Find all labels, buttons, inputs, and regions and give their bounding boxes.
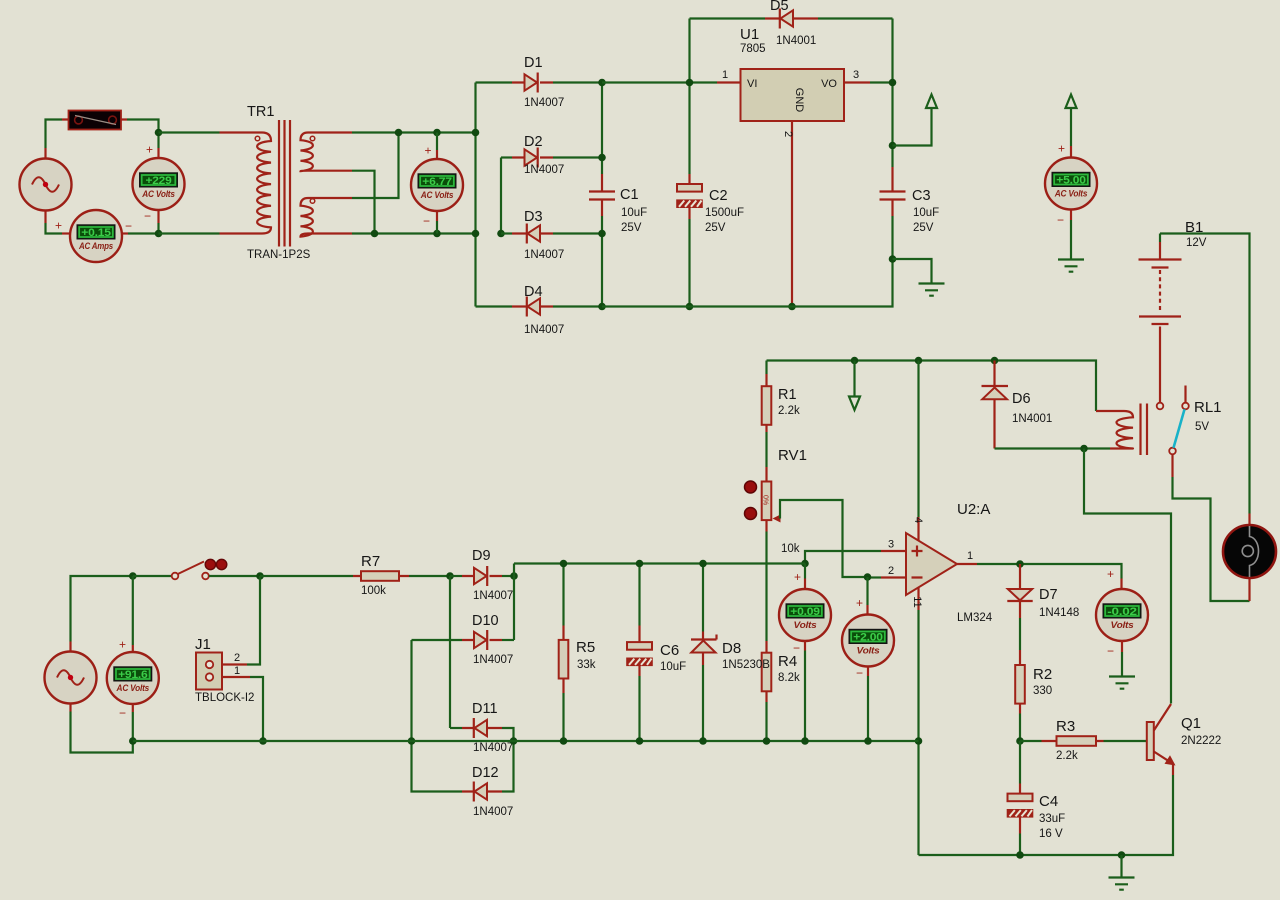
- svg-text:+: +: [1058, 142, 1065, 156]
- svg-text:D9: D9: [472, 548, 491, 564]
- svg-text:+0.09: +0.09: [790, 606, 820, 618]
- svg-text:VO: VO: [821, 78, 837, 90]
- svg-text:12V: 12V: [1186, 237, 1207, 249]
- svg-text:TRAN-1P2S: TRAN-1P2S: [247, 249, 311, 261]
- svg-text:+5.00: +5.00: [1056, 175, 1086, 187]
- svg-text:7805: 7805: [740, 43, 766, 55]
- svg-text:D3: D3: [524, 209, 543, 225]
- svg-text:+: +: [856, 596, 863, 610]
- svg-text:16 V: 16 V: [1039, 828, 1063, 840]
- svg-text:1N4001: 1N4001: [776, 35, 816, 47]
- svg-text:2.2k: 2.2k: [778, 405, 800, 417]
- svg-text:Volts: Volts: [857, 646, 880, 656]
- svg-text:D12: D12: [472, 765, 499, 781]
- svg-text:D5: D5: [770, 0, 789, 14]
- svg-text:GND: GND: [793, 88, 805, 113]
- svg-text:+: +: [794, 570, 801, 584]
- svg-text:C3: C3: [912, 188, 931, 204]
- svg-text:+91.6: +91.6: [118, 669, 148, 681]
- svg-text:3: 3: [888, 539, 894, 551]
- svg-text:U2:A: U2:A: [957, 501, 990, 518]
- svg-text:2: 2: [234, 652, 240, 664]
- svg-text:C6: C6: [660, 642, 679, 659]
- svg-text:2N2222: 2N2222: [1181, 735, 1221, 747]
- svg-text:−: −: [119, 706, 126, 720]
- svg-text:J1: J1: [195, 636, 211, 653]
- svg-text:AC Volts: AC Volts: [420, 190, 453, 200]
- svg-text:AC Volts: AC Volts: [116, 683, 149, 693]
- svg-text:Volts: Volts: [1111, 620, 1134, 630]
- svg-text:1N5230B: 1N5230B: [722, 659, 770, 671]
- svg-text:VI: VI: [747, 78, 757, 90]
- svg-text:+: +: [1107, 567, 1114, 581]
- svg-text:−: −: [423, 214, 430, 228]
- svg-text:5V: 5V: [1195, 421, 1209, 433]
- svg-text:LM324: LM324: [957, 612, 993, 624]
- svg-text:25V: 25V: [705, 222, 726, 234]
- svg-text:AC Volts: AC Volts: [1054, 189, 1087, 199]
- svg-text:D8: D8: [722, 640, 741, 657]
- svg-text:25V: 25V: [913, 222, 934, 234]
- svg-text:+: +: [146, 143, 153, 157]
- svg-text:2: 2: [888, 565, 894, 577]
- svg-text:D10: D10: [472, 613, 499, 629]
- svg-text:R1: R1: [778, 387, 797, 403]
- svg-text:+: +: [119, 638, 126, 652]
- svg-text:330: 330: [1033, 685, 1052, 697]
- svg-text:1: 1: [967, 550, 973, 562]
- svg-text:10uF: 10uF: [913, 207, 939, 219]
- svg-text:1N4001: 1N4001: [1012, 413, 1052, 425]
- svg-text:1N4007: 1N4007: [473, 806, 513, 818]
- svg-text:+: +: [55, 219, 62, 233]
- svg-text:Volts: Volts: [794, 620, 817, 630]
- svg-text:AC Volts: AC Volts: [141, 189, 174, 199]
- svg-text:11: 11: [911, 596, 923, 607]
- svg-text:0%: 0%: [762, 495, 769, 505]
- svg-text:−: −: [144, 209, 151, 223]
- svg-text:+0.15: +0.15: [81, 227, 111, 239]
- svg-text:D7: D7: [1039, 587, 1058, 603]
- svg-text:10uF: 10uF: [621, 207, 647, 219]
- svg-text:33k: 33k: [577, 659, 596, 671]
- svg-text:D4: D4: [524, 284, 543, 300]
- svg-text:2.2k: 2.2k: [1056, 750, 1078, 762]
- svg-text:+6.77: +6.77: [422, 176, 452, 188]
- svg-text:−: −: [1057, 213, 1064, 227]
- svg-text:R3: R3: [1056, 718, 1075, 735]
- svg-text:RV1: RV1: [778, 447, 807, 464]
- svg-text:U1: U1: [740, 26, 759, 43]
- svg-text:100k: 100k: [361, 585, 386, 597]
- svg-text:1500uF: 1500uF: [705, 207, 744, 219]
- svg-text:+: +: [425, 144, 432, 158]
- svg-text:AC Amps: AC Amps: [78, 241, 113, 251]
- svg-text:10k: 10k: [781, 543, 800, 555]
- svg-text:C4: C4: [1039, 793, 1058, 810]
- svg-text:R7: R7: [361, 553, 380, 570]
- svg-text:TBLOCK-I2: TBLOCK-I2: [195, 692, 254, 704]
- svg-text:10uF: 10uF: [660, 661, 686, 673]
- svg-text:D6: D6: [1012, 391, 1031, 407]
- svg-text:RL1: RL1: [1194, 399, 1222, 416]
- svg-text:3: 3: [853, 69, 859, 81]
- svg-text:1N4007: 1N4007: [524, 97, 564, 109]
- svg-text:1N4007: 1N4007: [524, 164, 564, 176]
- svg-text:−: −: [1107, 644, 1114, 658]
- svg-text:D2: D2: [524, 134, 543, 150]
- svg-text:1: 1: [234, 665, 240, 677]
- svg-text:R2: R2: [1033, 666, 1052, 683]
- svg-text:R5: R5: [576, 639, 595, 656]
- svg-text:−: −: [856, 666, 863, 680]
- svg-text:1N4007: 1N4007: [473, 590, 513, 602]
- svg-text:D1: D1: [524, 55, 543, 71]
- svg-text:2: 2: [782, 131, 794, 137]
- svg-text:1: 1: [722, 69, 728, 81]
- svg-text:1N4148: 1N4148: [1039, 607, 1079, 619]
- svg-text:TR1: TR1: [247, 104, 274, 120]
- svg-text:−: −: [793, 641, 800, 655]
- svg-text:1N4007: 1N4007: [524, 249, 564, 261]
- svg-text:1N4007: 1N4007: [524, 324, 564, 336]
- svg-text:4: 4: [912, 517, 924, 523]
- svg-text:B1: B1: [1185, 219, 1203, 236]
- svg-text:C1: C1: [620, 187, 639, 203]
- svg-text:−: −: [125, 219, 132, 233]
- svg-text:D11: D11: [472, 701, 498, 717]
- svg-text:1N4007: 1N4007: [473, 742, 513, 754]
- svg-text:1N4007: 1N4007: [473, 654, 513, 666]
- svg-text:33uF: 33uF: [1039, 813, 1065, 825]
- svg-text:-0.02: -0.02: [1107, 606, 1137, 618]
- svg-text:8.2k: 8.2k: [778, 672, 800, 684]
- svg-text:+229: +229: [146, 175, 172, 187]
- svg-text:25V: 25V: [621, 222, 642, 234]
- svg-text:Q1: Q1: [1181, 715, 1201, 732]
- svg-text:C2: C2: [709, 188, 728, 204]
- svg-text:R4: R4: [778, 653, 797, 670]
- svg-text:+2.00: +2.00: [853, 632, 883, 644]
